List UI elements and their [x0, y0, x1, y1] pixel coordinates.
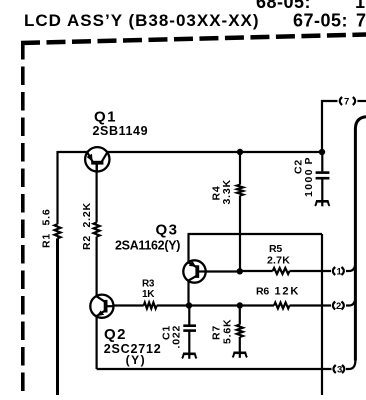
wire pin7 riser	[322, 101, 338, 152]
wire Q3 base right	[206, 270, 240, 272]
wire R3 to node	[157, 304, 189, 306]
junction main/R4	[237, 149, 243, 155]
junction main/C2	[319, 149, 325, 155]
svg-text:2: 2	[336, 301, 341, 312]
svg-text:5.6K: 5.6K	[222, 319, 234, 344]
svg-text:1K: 1K	[142, 289, 155, 300]
resistor R4	[237, 185, 243, 196]
svg-text:3: 3	[337, 365, 342, 376]
resistor R3	[144, 303, 157, 309]
ground C1	[182, 354, 197, 359]
wire Q3 bottom lead	[187, 281, 189, 306]
svg-text:.022: .022	[171, 325, 183, 349]
svg-text:(Y): (Y)	[126, 353, 147, 367]
connector outline	[355, 117, 366, 361]
wire R4 branch	[239, 152, 241, 185]
svg-text:7: 7	[344, 97, 349, 108]
wire R6 left	[240, 304, 274, 306]
wire R4 lower	[239, 196, 241, 272]
wire Q1 base to R2	[95, 164, 97, 223]
dashed border top	[21, 35, 366, 44]
junction Q3/R4/R5	[237, 268, 243, 274]
wire R1 branch upper	[56, 151, 58, 224]
wire R2 to Q2	[95, 237, 97, 298]
svg-text:1000 P: 1000 P	[303, 156, 315, 197]
resistor R1	[55, 224, 61, 238]
wire R1 branch lower	[56, 238, 59, 395]
resistor R2	[94, 223, 100, 237]
ground R7	[233, 353, 248, 358]
wire R6 right	[290, 304, 332, 306]
transistor Q2	[90, 295, 113, 318]
svg-text:R6: R6	[256, 286, 269, 298]
wire R5 right	[290, 270, 332, 272]
capacitor C2	[316, 152, 330, 200]
wire loop vertical down	[321, 234, 323, 395]
svg-text:2SA1162(Y): 2SA1162(Y)	[115, 239, 180, 253]
pin 3 bracket	[333, 360, 355, 375]
wire Q2 base	[114, 304, 144, 306]
svg-text:3.3K: 3.3K	[221, 179, 233, 204]
ground C2	[315, 201, 330, 206]
svg-text:R1 5.6: R1 5.6	[41, 209, 53, 248]
wire loop horizontal	[188, 233, 323, 235]
resistor R5	[273, 268, 290, 274]
resistor R6	[274, 303, 290, 309]
wire R7 upper	[239, 306, 241, 325]
transistor Q1	[85, 147, 109, 171]
transistor Q3	[183, 260, 205, 282]
svg-text:67-05:: 67-05:	[293, 11, 348, 31]
wire node to R6 node	[189, 304, 240, 306]
pin 2 bracket	[333, 297, 356, 312]
wire R5 left	[240, 270, 273, 272]
wire Q3 top to loop	[187, 234, 189, 263]
resistor R7	[237, 325, 243, 337]
pin 1 bracket	[333, 262, 356, 277]
svg-text:7: 7	[356, 11, 366, 31]
junction node R3/Q3base/C1	[186, 302, 192, 308]
wire R7 lower	[239, 337, 241, 352]
dashed border left	[21, 41, 25, 395]
capacitor C1	[183, 306, 196, 353]
svg-text:LCD ASS’Y (B38-03XX-XX): LCD ASS’Y (B38-03XX-XX)	[24, 11, 260, 30]
svg-text:R2 2.2K: R2 2.2K	[81, 202, 93, 250]
wire main top rail	[58, 151, 323, 153]
svg-text:2SB1149: 2SB1149	[93, 124, 149, 138]
pin 7 bracket	[340, 97, 366, 108]
junction R6/R7	[237, 302, 243, 308]
svg-text:2.7K: 2.7K	[267, 254, 290, 266]
svg-text:Q2: Q2	[104, 326, 127, 343]
wire Q2 emitter down	[95, 316, 97, 369]
svg-text:R5: R5	[269, 243, 282, 255]
svg-text:12K: 12K	[275, 286, 301, 298]
svg-text:Q3: Q3	[156, 222, 179, 239]
wire bottom rail to pin3	[97, 368, 332, 370]
svg-text:Q1: Q1	[94, 109, 117, 126]
